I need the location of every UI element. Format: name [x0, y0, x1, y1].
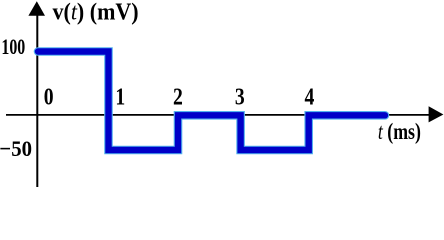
svg-text:2: 2	[173, 83, 183, 110]
svg-text:1: 1	[115, 83, 125, 110]
svg-text:100: 100	[1, 36, 25, 60]
svg-text:4: 4	[304, 83, 314, 110]
svg-text:−50: −50	[0, 136, 32, 161]
svg-text:v(t) (mV): v(t) (mV)	[53, 0, 139, 26]
svg-text:0: 0	[44, 83, 54, 110]
svg-text:3: 3	[235, 83, 245, 110]
svg-text:t (ms): t (ms)	[378, 117, 421, 144]
